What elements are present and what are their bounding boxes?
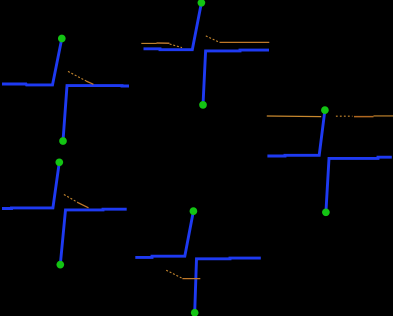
via B top	[198, 0, 206, 7]
wire B upper strand	[144, 3, 202, 50]
via B bottom	[199, 101, 207, 109]
crossing figure E (bottom-center)	[135, 207, 260, 316]
ratsnest A solid tail	[86, 81, 93, 84]
wire D upper strand	[2, 162, 59, 208]
crossing figure D (left-middle)	[2, 158, 127, 268]
ratsnest C right solid thin	[374, 115, 393, 117]
ratsnest D solid tail	[77, 202, 88, 208]
ratsnest C right dotted	[336, 115, 353, 117]
wire D lower strand	[60, 209, 126, 264]
crossing figure B (top-center)	[141, 0, 269, 109]
via A bottom	[59, 137, 67, 145]
ratsnest A diagonal dashed	[68, 71, 86, 81]
wire E lower strand	[195, 258, 261, 313]
wire C lower strand	[326, 157, 392, 212]
ratsnest E diagonal dashed	[166, 270, 182, 278]
wire C upper strand	[267, 110, 325, 156]
crossing figure C (right)	[267, 106, 393, 216]
wire B lower strand	[203, 50, 269, 105]
via A top	[58, 35, 66, 43]
crossing figure A (top-left)	[2, 35, 129, 145]
ratsnest B left dashed descent	[170, 44, 182, 48]
ratsnest B right dashed descent	[206, 36, 220, 42]
ratsnest E solid tail	[182, 278, 200, 280]
wire A lower strand (right horizontal + slanted drop to bottom via)	[63, 86, 129, 141]
ratsnest B left solid	[141, 42, 156, 44]
ratsnest B right solid	[220, 41, 270, 43]
ratsnest D diagonal dashed	[64, 195, 78, 203]
ratsnest C left solid	[267, 115, 321, 118]
via E bottom	[191, 309, 199, 316]
ratsnest C right solid thick	[354, 116, 374, 118]
wire A upper strand (left horizontal + slanted riser to top via)	[2, 39, 62, 85]
via D bottom	[56, 261, 64, 269]
wire E upper strand	[135, 211, 193, 257]
via E top	[190, 207, 198, 215]
ratsnest B left solid thicker part	[157, 42, 170, 44]
via C bottom	[322, 208, 330, 216]
via D top	[55, 158, 63, 166]
via C top	[321, 106, 329, 114]
